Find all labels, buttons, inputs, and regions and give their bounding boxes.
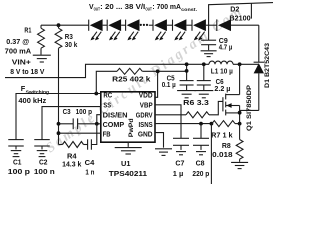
- ground below GND pin: [155, 149, 172, 156]
- label VIN: [10, 59, 45, 75]
- node ISNS/crop wire: [210, 122, 214, 126]
- capacitor C8: [193, 124, 209, 150]
- LED 5: [173, 19, 187, 40]
- node RC/R25 junction: [94, 92, 98, 96]
- svg-text:700 mA: 700 mA: [5, 48, 32, 55]
- wire LED6 to D2: [206, 24, 217, 26]
- label R7 value: [211, 132, 233, 139]
- svg-text:PwPd: PwPd: [128, 118, 135, 137]
- wire GND pin: [155, 133, 164, 148]
- resistor R7: [212, 121, 240, 127]
- svg-text:14.3 k: 14.3 k: [62, 162, 81, 169]
- svg-text:: 700 mA: : 700 mA: [152, 4, 181, 11]
- node C5/R25: [185, 69, 189, 73]
- node VDD/R25: [156, 69, 160, 73]
- wire VDD pin: [155, 71, 158, 97]
- svg-text:220 p: 220 p: [192, 171, 209, 178]
- label C8 value: [192, 161, 209, 178]
- wire: [186, 24, 192, 26]
- label U1 TPS40211: [109, 161, 147, 178]
- node Q1 source / D1 anode: [238, 111, 242, 115]
- label R25 value: [112, 77, 150, 84]
- svg-text:GND: GND: [138, 130, 153, 139]
- label R4 value: [62, 153, 81, 168]
- node FB: [57, 131, 61, 135]
- label C9 value: [219, 38, 233, 52]
- node COMP right: [95, 122, 99, 126]
- svg-text:400 kHz: 400 kHz: [18, 98, 46, 105]
- node: switch node dot: [238, 62, 242, 66]
- capacitor C1: [8, 140, 24, 150]
- node ISNS/C8: [199, 122, 203, 126]
- wire IC powerpad to ground: [127, 142, 129, 147]
- svg-text:VIN+: VIN+: [12, 59, 31, 66]
- svg-text:C1: C1: [13, 160, 22, 167]
- svg-text:C7: C7: [175, 161, 184, 168]
- svg-text:OUT: OUT: [94, 6, 100, 12]
- svg-text:C4: C4: [85, 160, 95, 167]
- svg-text:C2: C2: [39, 160, 48, 167]
- svg-text:R7 1 k: R7 1 k: [211, 132, 233, 139]
- IC U1 TPS40211: [101, 91, 155, 143]
- svg-text:100 n: 100 n: [34, 169, 55, 176]
- wire DIS/EN pin to COMP node: [97, 115, 101, 124]
- svg-text:R3: R3: [65, 34, 73, 41]
- wire COMP pin: [59, 123, 101, 125]
- svg-text:Switching: Switching: [26, 89, 50, 95]
- zener diode D1 (B2T52C43): [254, 62, 264, 110]
- svg-text:DIS/EN: DIS/EN: [103, 110, 128, 119]
- svg-text:C6: C6: [216, 79, 224, 86]
- svg-text:4.7 µ: 4.7 µ: [219, 45, 233, 52]
- node R7/R8: [238, 122, 242, 126]
- ground below C7: [176, 152, 186, 155]
- node COMP left: [57, 122, 61, 126]
- wire VIN rail to inductor: [5, 64, 209, 77]
- svg-text:0.1 µ: 0.1 µ: [162, 82, 176, 89]
- svg-text:: 20 ... 38 V/I: : 20 ... 38 V/I: [100, 4, 145, 11]
- svg-text:2.2 µ: 2.2 µ: [214, 86, 230, 93]
- wire: [103, 24, 108, 26]
- svg-text:0.018: 0.018: [212, 152, 233, 159]
- svg-text:1 n: 1 n: [85, 169, 94, 176]
- wire SS pin: [42, 107, 101, 140]
- label Vout title: [89, 4, 197, 13]
- svg-text:VBP: VBP: [140, 101, 153, 110]
- label R3 value: [65, 34, 78, 49]
- label C3 value: [63, 109, 92, 116]
- label R6 value: [183, 100, 209, 107]
- svg-text:FB: FB: [103, 130, 111, 139]
- LED 2: [107, 19, 121, 40]
- wire: [167, 24, 173, 26]
- label F switching: [18, 86, 49, 105]
- svg-text:const.: const.: [181, 7, 197, 13]
- ground below C6: [194, 91, 213, 98]
- label R8 value: [212, 143, 233, 159]
- label C6 value: [214, 79, 230, 93]
- svg-text:COMP: COMP: [103, 120, 125, 129]
- svg-text:100 p: 100 p: [76, 109, 92, 116]
- label C2 value: [34, 160, 55, 176]
- wire VBP pin to C7: [155, 105, 181, 139]
- svg-text:C8: C8: [196, 161, 205, 168]
- LED 6: [192, 19, 206, 40]
- svg-text:R6 3.3: R6 3.3: [183, 100, 209, 107]
- capacitor C7: [173, 138, 189, 150]
- wire RC pin: [16, 94, 101, 140]
- svg-text:Q1 SI7850DP: Q1 SI7850DP: [246, 85, 253, 131]
- wire cropped stub top right: [250, 3, 252, 18]
- label C4 value: [85, 160, 95, 177]
- wire R3 bottom to FB node (long vertical): [58, 48, 60, 144]
- ground below IC pad: [115, 148, 142, 154]
- capacitor C9: [201, 25, 216, 50]
- svg-text:D2: D2: [230, 7, 239, 14]
- wire FB pin: [59, 132, 101, 134]
- ground below C5: [177, 91, 196, 98]
- ground below C2: [37, 151, 48, 157]
- svg-text:ISNS: ISNS: [139, 120, 153, 129]
- diode D2 (B2100 schottky): [217, 19, 259, 31]
- LED 3: [126, 19, 140, 40]
- label R1 value: [5, 28, 32, 56]
- label C1 value: [8, 160, 30, 176]
- wire top rail from R1/R3 to LED string: [41, 24, 89, 26]
- label C7 value: [173, 161, 185, 178]
- svg-text:TPS40211: TPS40211: [109, 171, 147, 178]
- resistor R25: [96, 68, 186, 93]
- svg-text:D1 B2T52C43: D1 B2T52C43: [264, 42, 271, 88]
- resistor R4: [59, 142, 88, 148]
- svg-text:SS: SS: [103, 101, 111, 110]
- capacitor C4: [88, 124, 97, 150]
- svg-text:R4: R4: [67, 153, 77, 160]
- svg-text:R1: R1: [24, 28, 31, 35]
- wire D1 anode to source node: [240, 109, 259, 111]
- label L1 value: [211, 68, 233, 75]
- svg-text:VDD: VDD: [139, 91, 153, 100]
- svg-text:0.37 @: 0.37 @: [6, 39, 29, 46]
- svg-text:L1 10 µ: L1 10 µ: [211, 68, 233, 75]
- svg-text:8 V to 18 V: 8 V to 18 V: [10, 69, 45, 76]
- wire D2 anode down to switch node: [258, 25, 260, 62]
- svg-text:B2100: B2100: [229, 16, 250, 23]
- LED 1: [89, 19, 103, 40]
- svg-text:R25 402 k: R25 402 k: [112, 77, 150, 84]
- node C6 top: [202, 62, 206, 66]
- capacitor C6: [197, 64, 211, 90]
- resistor R3: [55, 25, 62, 48]
- label Q1 SI7850DP (rotated): [246, 85, 253, 131]
- svg-text:GDRV: GDRV: [136, 110, 153, 119]
- capacitor C2: [34, 140, 50, 150]
- node A: R3 top junction: [57, 23, 61, 27]
- resistor R1: [38, 25, 45, 55]
- inductor L1: [209, 61, 259, 64]
- node C5 top: [185, 62, 189, 66]
- wire output node up and to cropped edge: [209, 3, 273, 26]
- svg-text:100 p: 100 p: [8, 169, 30, 176]
- wire: [121, 24, 126, 26]
- resistor R6: [155, 101, 223, 117]
- ground below C9: [201, 51, 217, 57]
- svg-text:30 k: 30 k: [65, 42, 78, 49]
- wire ISNS stub to bottom edge (cropped): [210, 124, 212, 184]
- LED 4: [153, 19, 167, 40]
- svg-text:OUT: OUT: [145, 6, 152, 12]
- resistor R8: [236, 124, 243, 162]
- node: LED string continuation dots: [140, 24, 148, 26]
- transistor Q1 (Si7850DP MOSFET): [223, 64, 240, 123]
- capacitor C5: [180, 64, 194, 90]
- svg-text:1 µ: 1 µ: [173, 171, 184, 178]
- svg-text:R8: R8: [222, 143, 231, 150]
- svg-text:RC: RC: [103, 91, 112, 100]
- svg-text:U1: U1: [121, 161, 131, 168]
- ground below R8: [231, 162, 248, 168]
- watermark: [44, 3, 247, 156]
- wire ISNS pin: [155, 123, 212, 125]
- label D2 B2100: [229, 7, 250, 23]
- label D1 B2T52C43 (rotated): [264, 42, 271, 88]
- wire: [149, 24, 153, 26]
- label C5 value: [162, 76, 176, 90]
- svg-text:C3: C3: [63, 109, 71, 116]
- ground below C1: [11, 151, 22, 157]
- ground below R1: [33, 55, 51, 62]
- capacitor C3: [73, 118, 77, 129]
- ground below C8: [196, 152, 206, 155]
